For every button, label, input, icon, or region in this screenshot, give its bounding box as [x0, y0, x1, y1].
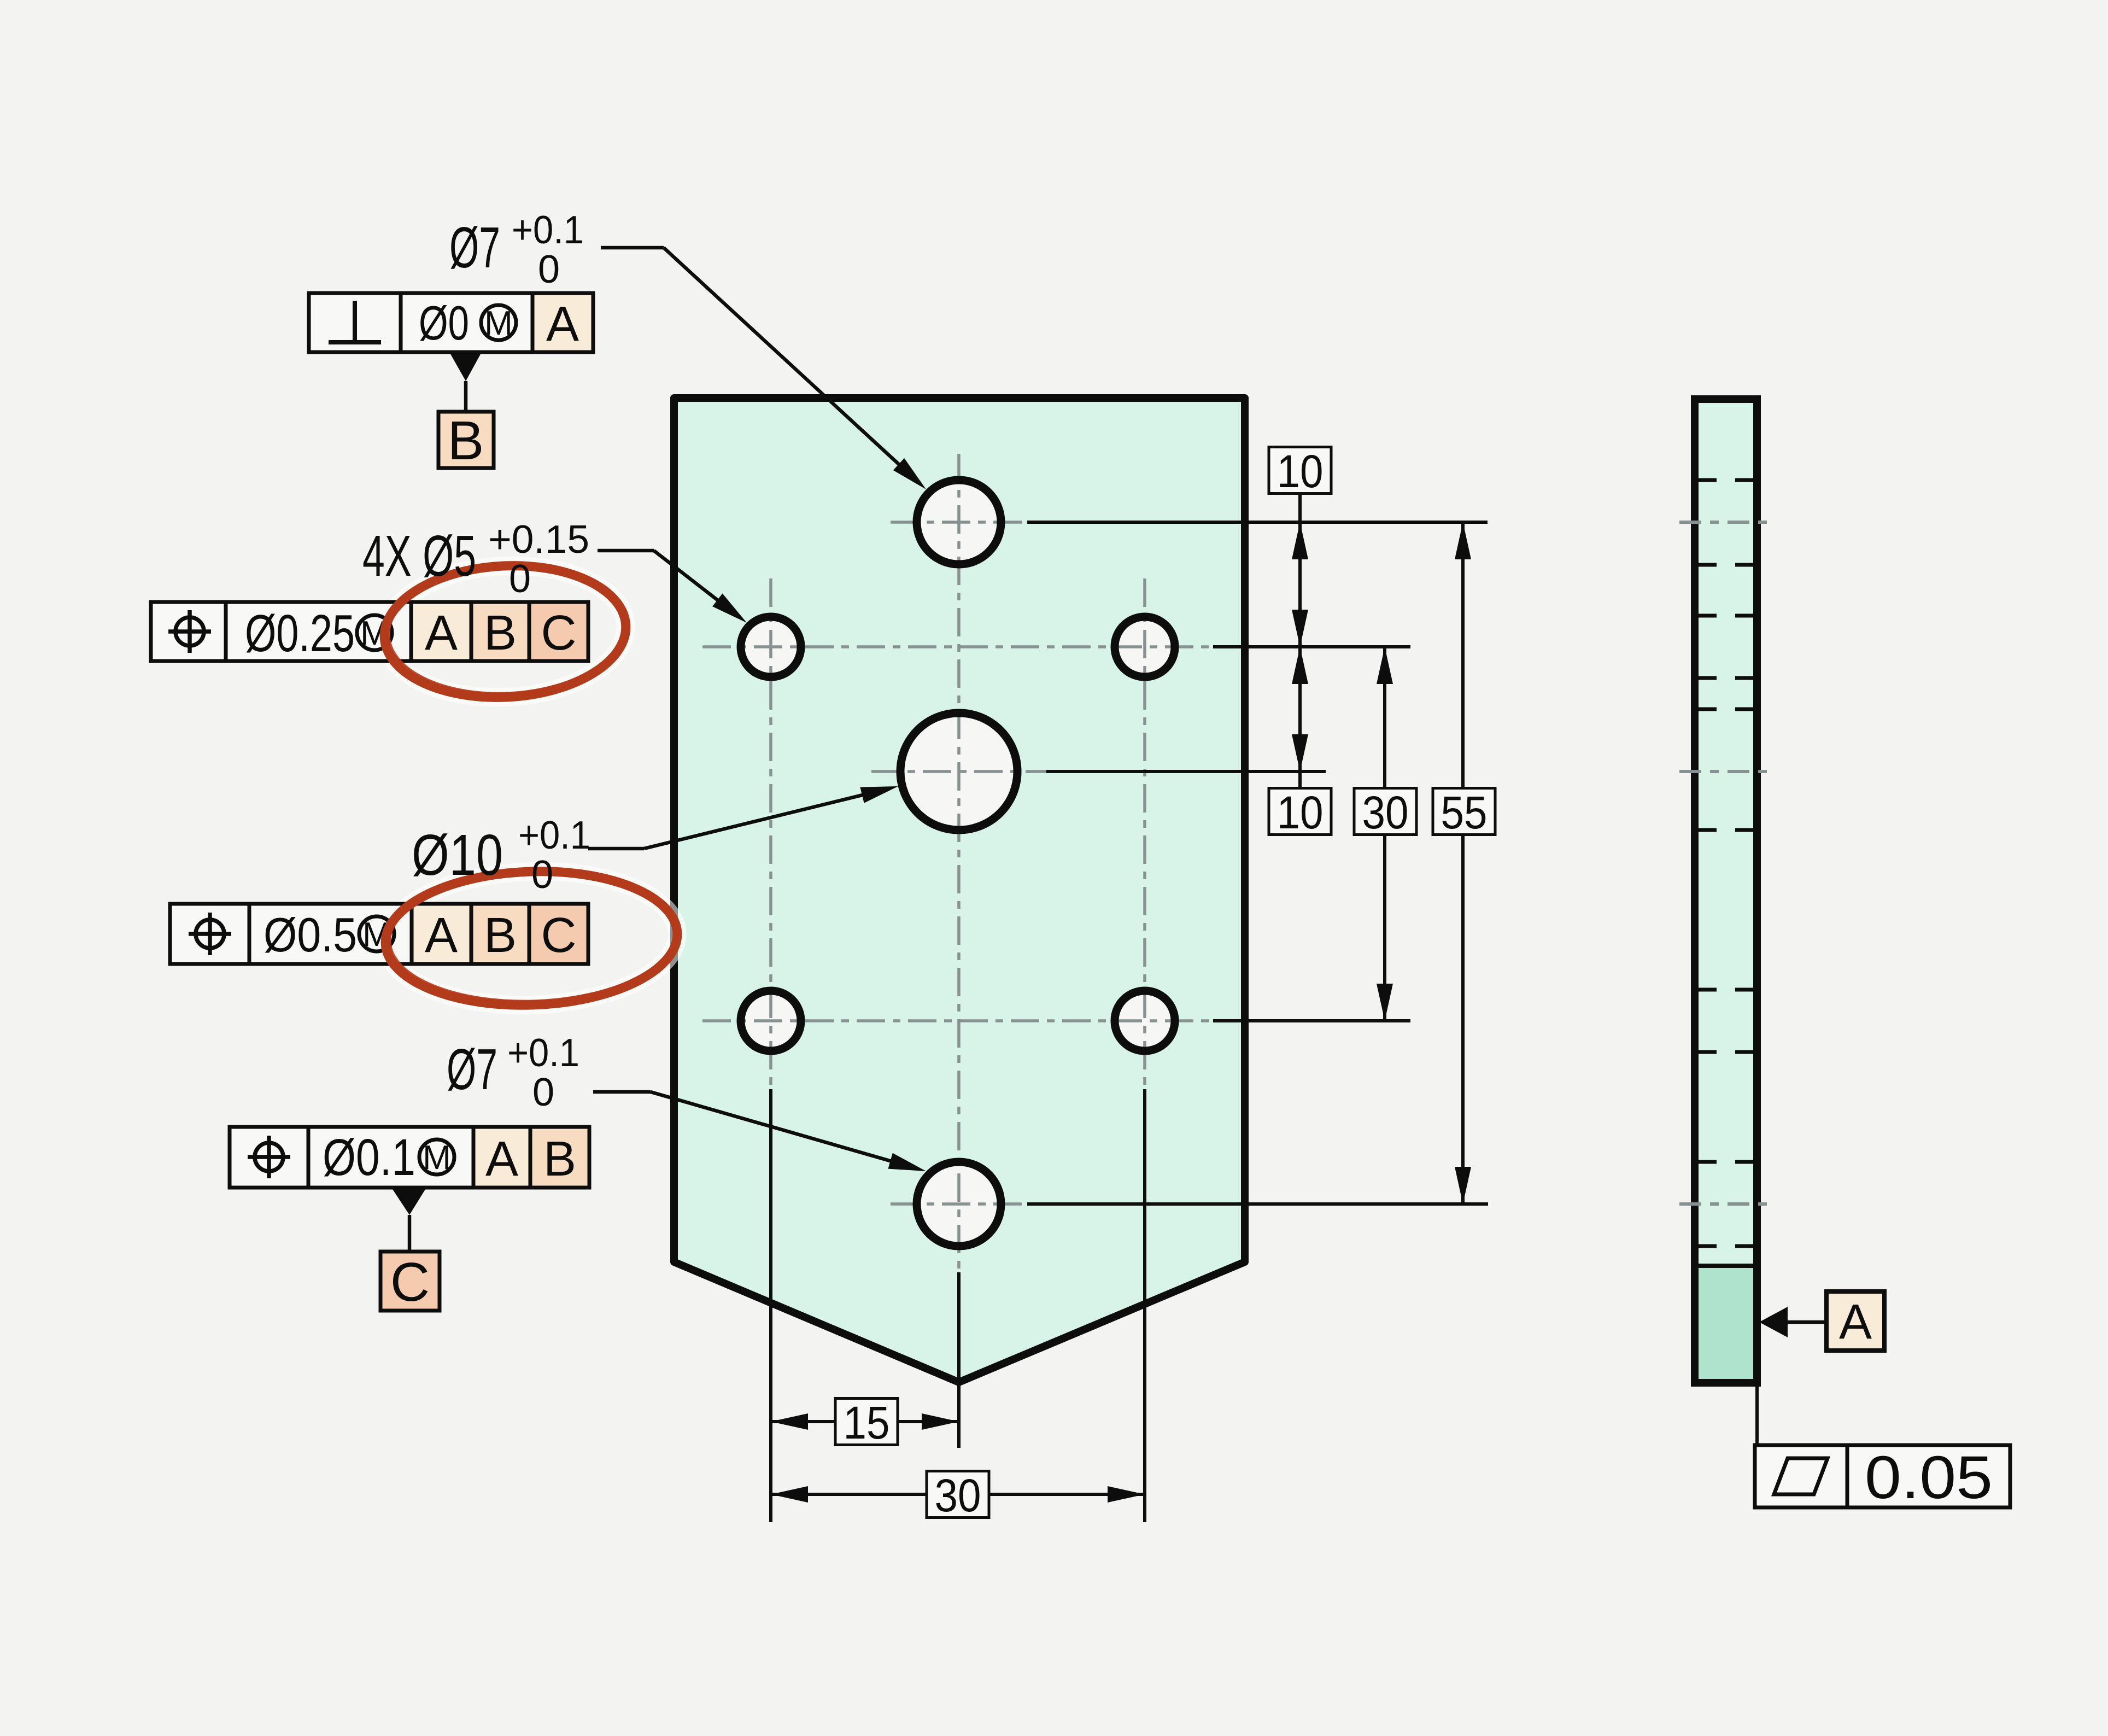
svg-text:Ø7: Ø7 [449, 215, 500, 280]
svg-text:M: M [484, 305, 513, 342]
svg-text:+0.1: +0.1 [512, 208, 584, 252]
svg-text:Ø0.5: Ø0.5 [263, 908, 357, 962]
svg-text:10: 10 [1277, 787, 1324, 838]
svg-text:A: A [425, 606, 458, 661]
svg-text:30: 30 [935, 1470, 981, 1521]
svg-text:M: M [423, 1139, 451, 1177]
svg-text:Ø7: Ø7 [447, 1037, 497, 1102]
svg-text:C: C [390, 1252, 430, 1313]
svg-text:0: 0 [509, 557, 531, 601]
svg-text:+0.15: +0.15 [488, 518, 589, 562]
svg-text:30: 30 [1362, 787, 1409, 838]
svg-text:+0.1: +0.1 [518, 814, 590, 857]
svg-text:A: A [485, 1132, 518, 1186]
svg-text:0: 0 [538, 248, 560, 291]
svg-text:+0.1: +0.1 [507, 1031, 579, 1075]
svg-text:55: 55 [1441, 787, 1488, 838]
svg-text:Ø0.25: Ø0.25 [245, 604, 355, 663]
svg-text:Ø0: Ø0 [419, 296, 469, 350]
svg-text:Ø10: Ø10 [412, 823, 503, 887]
svg-text:B: B [484, 606, 517, 661]
svg-text:4X Ø5: 4X Ø5 [362, 524, 476, 588]
svg-text:A: A [425, 908, 458, 963]
svg-text:B: B [484, 908, 517, 963]
svg-text:0: 0 [531, 853, 553, 897]
svg-text:A: A [1839, 1295, 1872, 1349]
svg-text:Ø0.1: Ø0.1 [323, 1129, 415, 1186]
svg-text:0.05: 0.05 [1865, 1444, 1993, 1511]
svg-text:10: 10 [1277, 446, 1324, 497]
svg-text:0: 0 [532, 1071, 554, 1114]
svg-text:B: B [448, 410, 484, 471]
svg-text:15: 15 [844, 1397, 890, 1448]
svg-text:C: C [541, 908, 577, 963]
svg-text:A: A [546, 297, 579, 352]
svg-text:C: C [541, 606, 577, 661]
svg-text:B: B [543, 1132, 576, 1186]
